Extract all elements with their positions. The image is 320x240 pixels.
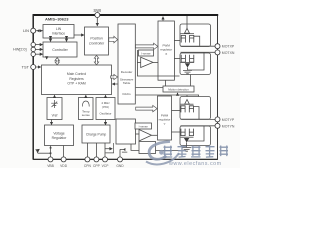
svg-text:VDD: VDD	[60, 164, 68, 168]
transistor bridge Y upper enclosure	[180, 97, 211, 120]
svg-text:Voltage: Voltage	[53, 131, 64, 135]
svg-text:CPN: CPN	[84, 164, 92, 168]
svg-text:Controller: Controller	[89, 41, 105, 45]
svg-text:Charge Pump: Charge Pump	[86, 132, 107, 136]
pin VBB	[50, 146, 52, 157]
wire decoder lower bus	[136, 95, 199, 97]
ground bridge Y	[182, 148, 191, 152]
wire sense feedback X	[137, 50, 179, 76]
wire bridge X to ground	[187, 68, 189, 71]
block Vref	[47, 98, 62, 120]
svg-text:I-sense: I-sense	[141, 52, 151, 56]
wire output MOTYN	[181, 125, 216, 127]
svg-text:Regulator: Regulator	[52, 136, 68, 140]
block temp sense	[79, 98, 94, 120]
op-amp I-sense Y comparator	[139, 130, 152, 142]
svg-text:MOTXN: MOTXN	[222, 51, 235, 55]
svg-text:LIN: LIN	[23, 28, 29, 33]
transistor Q6 (Y high-side right)	[189, 106, 193, 113]
svg-text:CPP: CPP	[93, 164, 101, 168]
ground symbol above GND pin	[120, 149, 127, 152]
block LIN interface	[43, 25, 74, 39]
svg-text:Position: Position	[90, 37, 103, 41]
transistor Q7 (Y low-side left)	[181, 129, 185, 136]
junction dots VBB net	[50, 147, 52, 149]
svg-text:X: X	[165, 52, 167, 56]
wire PWM X to motion detection	[165, 80, 167, 86]
block I-sense X	[139, 50, 154, 56]
svg-text:SWI: SWI	[93, 8, 101, 13]
svg-text:HW[2:0]: HW[2:0]	[13, 48, 26, 52]
wire PWM regulator X to VBB rail	[162, 17, 164, 21]
svg-text:OTP + RAM: OTP + RAM	[67, 82, 85, 86]
pin VCP	[104, 143, 106, 157]
svg-text:Table: Table	[123, 81, 131, 85]
svg-text:Decoder: Decoder	[121, 70, 133, 74]
svg-text:(±5%): (±5%)	[102, 105, 109, 109]
ground triangle bridge X	[185, 63, 190, 67]
pins HW[2:0]	[13, 42, 35, 56]
svg-text:Oscillator: Oscillator	[99, 111, 111, 115]
wire Vref to registers	[54, 95, 56, 97]
node top bus bridge X	[181, 33, 195, 35]
wire SWI to position controller	[96, 18, 98, 26]
wire controller aux line	[46, 57, 48, 59]
block controller	[43, 42, 77, 57]
transistor bridge X lower enclosure	[180, 53, 211, 75]
wire position controller to registers (hollow double arrow)	[94, 55, 98, 64]
ground triangle bridge Y	[184, 138, 189, 142]
wire gate stub X top	[174, 40, 180, 42]
svg-text:Motion detection: Motion detection	[168, 88, 189, 92]
pin CPN	[86, 143, 88, 157]
pin TST	[22, 65, 36, 70]
transistor Q2 (X high-side right)	[190, 35, 194, 42]
svg-text:MOTYP: MOTYP	[222, 118, 235, 122]
wire Q6 drain link	[194, 107, 200, 119]
block aux (unlabeled) A	[116, 119, 136, 144]
transistor bridge X upper enclosure	[180, 24, 211, 47]
svg-text:AMIS−30623: AMIS−30623	[45, 16, 69, 21]
wire registers to decoder (hollow double arrow)	[111, 74, 118, 79]
watermark text (pseudo CJK)	[163, 145, 228, 157]
wire battery arrow (VBB supply)	[38, 152, 51, 154]
VBB entry triangle bridge Y	[185, 100, 190, 105]
wire DACs to PWM regulator Y (hollow arrow)	[136, 105, 157, 111]
svg-text:VCP: VCP	[102, 164, 110, 168]
block voltage regulator	[45, 125, 74, 146]
chip left border	[32, 15, 34, 160]
pin LIN	[23, 28, 36, 33]
svg-text:regulator: regulator	[159, 118, 171, 122]
node top bus bridge Y	[181, 103, 194, 105]
wire aux A to comparator Y	[136, 133, 140, 135]
wire VBB tap to bridge Y	[186, 95, 188, 100]
wire Vref to voltage regulator	[51, 120, 53, 125]
transistor Q5 (Y high-side left)	[181, 106, 185, 113]
wire Q2 drain link	[194, 36, 200, 46]
svg-text:Controller: Controller	[52, 48, 68, 52]
wire decoder to motion detection	[136, 87, 163, 89]
wire LIN interface to position controller	[74, 34, 84, 36]
transistor bridge Y lower enclosure	[180, 126, 211, 146]
wire gate stub Y bottom	[172, 131, 181, 133]
chip outline	[33, 15, 217, 159]
op-amp I-sense X comparator	[141, 57, 153, 67]
wire aux B to bridge Y	[156, 150, 180, 152]
wire bridge Y to ground	[186, 142, 188, 147]
svg-text:Y: Y	[163, 122, 165, 126]
wire LIN to LIN interface (bidirectional)	[36, 30, 43, 32]
block motion detection	[163, 86, 194, 92]
svg-text:sense: sense	[82, 113, 90, 117]
wire VBB to bridge X	[186, 16, 188, 28]
pin MOTXP	[215, 44, 220, 49]
chip bottom border	[33, 158, 217, 160]
svg-text:I-sense: I-sense	[139, 125, 149, 129]
wire output MOTXP	[181, 45, 216, 47]
pin MOTXN	[215, 50, 220, 55]
pin SWI	[93, 8, 101, 18]
svg-text:Vref: Vref	[52, 114, 58, 118]
wire oscillator to charge pump	[105, 120, 107, 125]
ground bridge X	[183, 70, 192, 73]
wire decoder to PWM regulator X (hollow arrow)	[136, 43, 158, 49]
pin VDD	[63, 146, 65, 157]
svg-text:GND: GND	[116, 164, 124, 168]
pin MOTYP	[215, 117, 220, 122]
block decoder / sinewave table / DACs	[118, 24, 135, 104]
block PWM regulator X	[158, 21, 174, 80]
wire TST to registers	[36, 66, 41, 68]
wire position controller to decoder (hollow arrow)	[109, 36, 118, 43]
svg-text:www.elecfans.com: www.elecfans.com	[168, 161, 222, 167]
chip top border (thick)	[33, 14, 219, 16]
svg-text:TST: TST	[22, 65, 30, 70]
transistor Q4 (X low-side right)	[190, 55, 194, 62]
svg-text:Main Control: Main Control	[67, 72, 86, 76]
wires HW to controller	[36, 44, 43, 46]
node bottom bus bridge Y	[181, 136, 194, 138]
wire Q4 link loop	[188, 52, 204, 70]
VBB entry triangle bridge X	[185, 28, 190, 33]
block PWM regulator Y	[158, 96, 172, 140]
wire comparator X to PWM regulator X	[153, 61, 158, 63]
wire comparator X input tick	[137, 61, 140, 63]
block position controller	[85, 27, 109, 55]
block main control registers	[42, 65, 112, 95]
transistor Q1 (X high-side left)	[181, 35, 185, 42]
svg-text:4 MHz: 4 MHz	[101, 101, 110, 105]
svg-text:Registers: Registers	[69, 77, 84, 81]
svg-text:LIN: LIN	[56, 27, 62, 31]
node bottom bus bridge X	[181, 61, 195, 63]
transistor Q3 (X low-side left)	[181, 55, 185, 62]
pin CPP	[95, 143, 97, 157]
svg-text:DACs: DACs	[123, 92, 132, 96]
transistor Q8 (Y low-side right)	[189, 129, 193, 136]
svg-text:MOTXP: MOTXP	[222, 45, 235, 49]
watermark logo swoosh	[146, 142, 179, 165]
block aux (unlabeled) B	[139, 142, 156, 154]
block I-sense Y	[135, 123, 152, 129]
wire comparator Y to PWM regulator Y	[152, 134, 158, 136]
wire temp sense to registers	[85, 95, 87, 97]
svg-text:MOTYN: MOTYN	[222, 124, 235, 128]
wire gate stub X bottom	[174, 58, 180, 60]
svg-text:VBB: VBB	[47, 164, 54, 168]
wire VCP tap arrow	[105, 148, 110, 150]
pin GND	[119, 149, 121, 156]
wire output MOTXN	[181, 51, 216, 53]
wires LIN interface / controller links	[50, 39, 52, 42]
wire oscillator to registers	[105, 95, 107, 97]
wire output MOTYP	[181, 118, 216, 120]
wire bridge X to motion detection	[190, 75, 192, 86]
block charge pump	[82, 125, 110, 143]
block oscillator	[96, 98, 115, 120]
pin MOTYN	[215, 123, 220, 128]
svg-text:Interface: Interface	[52, 32, 65, 36]
wire Q8 link loop	[187, 126, 204, 141]
wire registers to decoder (arrow)	[112, 83, 117, 85]
wire controller to registers (hollow double arrow)	[55, 58, 59, 65]
wire gate stub Y top	[172, 110, 181, 112]
svg-text:regulator: regulator	[160, 48, 172, 52]
wire aux A to aux B	[131, 144, 139, 150]
wire branch arrow into motion detection	[177, 93, 179, 95]
